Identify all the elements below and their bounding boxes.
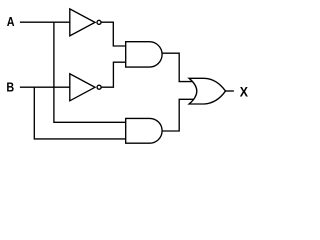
svg-text:A: A [7, 15, 15, 29]
wire A branch to AND2 input 1 [54, 22, 126, 122]
svg-text:X: X [240, 84, 249, 100]
and-gate U4 [126, 118, 162, 143]
inverter U1 triangle [70, 9, 95, 36]
svg-text:B: B [6, 81, 14, 95]
wire NOT-B output to AND1 input 2 [101, 62, 126, 87]
wire OR output to X [226, 90, 234, 92]
inverter U2 bubble [97, 85, 101, 89]
inverter U2 triangle [70, 74, 95, 101]
wire AND2 output to OR input 2 [162, 99, 194, 131]
or-gate U5 [189, 78, 225, 104]
wire NOT-A output to AND1 input 1 [101, 22, 126, 46]
wire AND1 output to OR input 1 [162, 53, 194, 81]
inverter U1 bubble [97, 20, 101, 24]
wire A input [20, 21, 70, 23]
wire B input [20, 86, 70, 88]
and-gate U3 [126, 42, 162, 67]
wire B branch to AND2 input 2 [34, 87, 125, 139]
